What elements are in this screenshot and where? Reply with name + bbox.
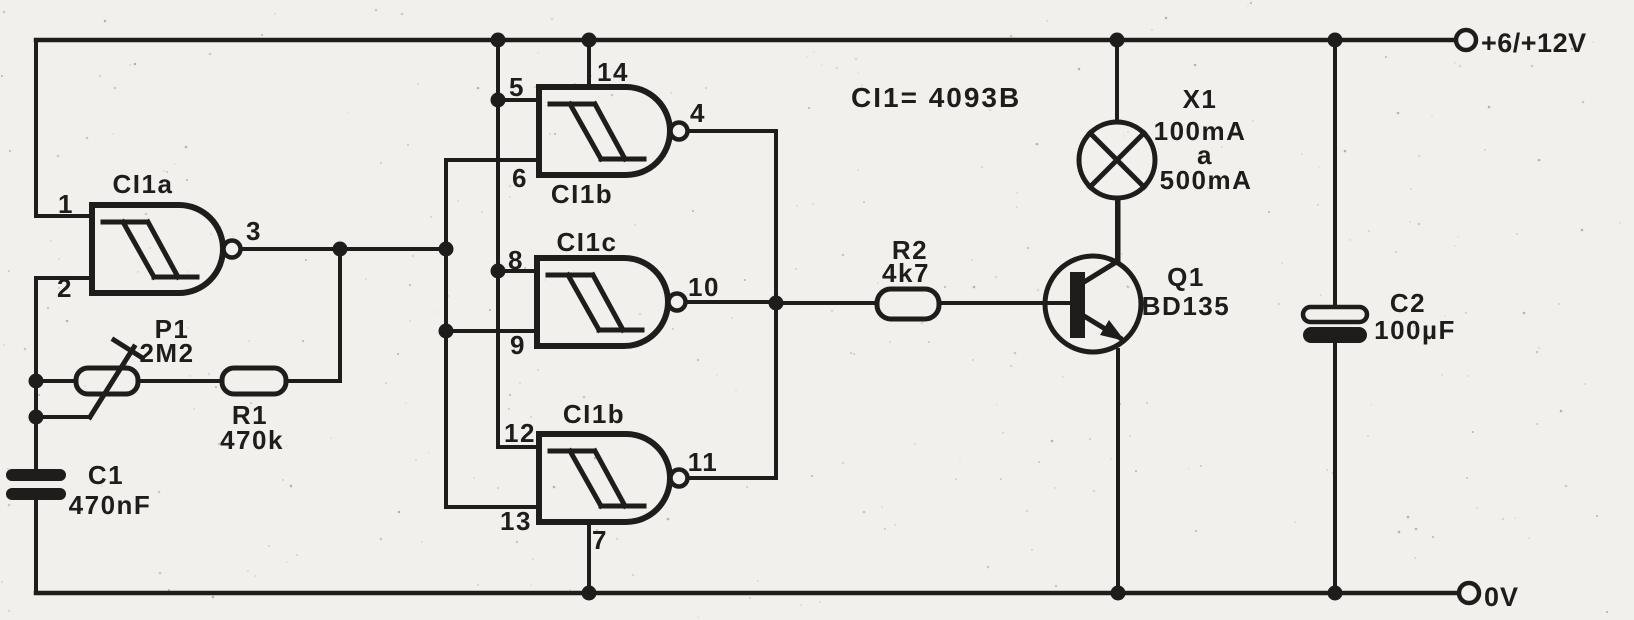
transistor Q1 collector bbox=[1084, 199, 1118, 282]
svg-text:13: 13 bbox=[500, 506, 532, 536]
gate CI1a schmitt symbol bbox=[103, 222, 197, 277]
wire vertical A (pins 6,9,13) bbox=[446, 160, 539, 507]
wire output 4 down to node 10 bbox=[688, 131, 776, 478]
capacitor C1 bottom plate bbox=[6, 488, 66, 500]
op-amp gate CI1c outline bbox=[537, 258, 668, 346]
potentiometer P1 body bbox=[76, 368, 138, 394]
wire P1 to R1 bbox=[138, 379, 222, 383]
terminal +6/+12V bbox=[1456, 30, 1476, 50]
node outputs join bbox=[769, 296, 784, 311]
wire output 10 bbox=[686, 300, 776, 304]
svg-text:CI1c: CI1c bbox=[557, 227, 618, 257]
node vertical B on top rail bbox=[491, 33, 506, 48]
svg-text:+6/+12V: +6/+12V bbox=[1481, 28, 1587, 58]
wire C2 to bottom rail bbox=[1333, 343, 1337, 593]
gate CI1b output bubble bbox=[671, 123, 688, 140]
wire pin 14 to top rail bbox=[587, 40, 591, 87]
svg-text:2: 2 bbox=[57, 273, 73, 303]
wire bottom rail 0V bbox=[36, 591, 1459, 596]
svg-text:14: 14 bbox=[597, 57, 629, 87]
svg-text:470nF: 470nF bbox=[69, 490, 152, 520]
svg-text:0V: 0V bbox=[1484, 582, 1519, 612]
gate CI1b schmitt symbol bbox=[550, 104, 644, 159]
terminal 0V bbox=[1459, 583, 1479, 603]
svg-text:6: 6 bbox=[512, 163, 528, 193]
wire emitter to bottom rail bbox=[1116, 350, 1120, 593]
svg-text:CI1= 4093B: CI1= 4093B bbox=[851, 82, 1021, 113]
svg-text:7: 7 bbox=[592, 525, 608, 555]
op-amp gate CI1a outline bbox=[92, 205, 223, 293]
lamp X1 cross bbox=[1090, 133, 1144, 187]
capacitor C2 positive plate bbox=[1303, 307, 1367, 322]
svg-text:3: 3 bbox=[246, 216, 262, 246]
svg-text:CI1b: CI1b bbox=[563, 399, 625, 429]
wire output 3 bbox=[241, 247, 446, 251]
transistor Q1 base bar bbox=[1070, 272, 1085, 338]
svg-text:2M2: 2M2 bbox=[139, 338, 194, 368]
gate CI1d output bubble bbox=[671, 470, 688, 487]
node pin 8 junction bbox=[491, 264, 506, 279]
transistor Q1 emitter bbox=[1084, 316, 1120, 338]
wire lamp to collector bbox=[1115, 198, 1119, 258]
resistor R1 body bbox=[222, 368, 286, 394]
op-amp gate CI1d outline bbox=[539, 434, 670, 522]
wire pin 2 branch down to P1/C1 bbox=[36, 278, 92, 469]
svg-text:C1: C1 bbox=[88, 460, 124, 490]
wire R2 to base of Q1 bbox=[939, 301, 1069, 305]
wire pin 9 stub bbox=[446, 329, 537, 333]
svg-text:CI1b: CI1b bbox=[551, 179, 613, 209]
node pin 5 junction bbox=[491, 93, 506, 108]
op-amp gate CI1b outline bbox=[539, 87, 670, 175]
potentiometer P1 wiper arrow bbox=[90, 340, 141, 417]
wire vertical B (pins 5,8,12) bbox=[498, 40, 539, 447]
node P1 top junction bbox=[29, 374, 44, 389]
svg-text:10: 10 bbox=[688, 272, 720, 302]
lamp X1 circle bbox=[1079, 122, 1155, 198]
wire pin 8 stub bbox=[498, 269, 537, 273]
svg-text:8: 8 bbox=[508, 245, 524, 275]
svg-text:1: 1 bbox=[58, 189, 74, 219]
wire node to R2 bbox=[776, 301, 877, 305]
svg-text:500mA: 500mA bbox=[1160, 165, 1253, 195]
wire wiper stub bbox=[36, 415, 90, 419]
gate CI1c output bubble bbox=[669, 294, 686, 311]
node P1 wiper junction bbox=[29, 410, 44, 425]
node pin 7 on bottom rail bbox=[582, 586, 597, 601]
node emitter on bottom rail bbox=[1111, 586, 1126, 601]
svg-text:C2: C2 bbox=[1390, 288, 1426, 318]
svg-text:4k7: 4k7 bbox=[882, 258, 930, 288]
wire R1 to output-3 node bbox=[286, 249, 340, 381]
node pin 14 on top rail bbox=[582, 33, 597, 48]
node output 3 / R1 branch bbox=[333, 242, 348, 257]
node pin 9 junction bbox=[439, 324, 454, 339]
gate CI1d schmitt symbol bbox=[550, 451, 644, 506]
gate CI1a output bubble bbox=[224, 241, 241, 258]
svg-text:Q1: Q1 bbox=[1167, 262, 1205, 292]
svg-text:5: 5 bbox=[509, 72, 525, 102]
wire top rail to lamp bbox=[1115, 40, 1119, 122]
wire top rail +V bbox=[36, 38, 1456, 43]
wire output 11 bbox=[688, 476, 776, 480]
node output 3 joins vertical A bbox=[439, 242, 454, 257]
wire left vertical from top rail to pin 1 bbox=[36, 40, 92, 216]
svg-text:BD135: BD135 bbox=[1142, 291, 1230, 321]
capacitor C1 top plate bbox=[6, 469, 66, 481]
svg-text:12: 12 bbox=[504, 418, 536, 448]
svg-text:470k: 470k bbox=[220, 425, 284, 455]
gate CI1c schmitt symbol bbox=[548, 275, 642, 330]
wire below C1 to bottom rail bbox=[34, 500, 38, 593]
node C2 on top rail bbox=[1328, 33, 1343, 48]
wire from node to P1 left bbox=[36, 379, 76, 383]
wire top rail to C2 bbox=[1333, 40, 1337, 307]
transistor Q1 emitter arrowhead bbox=[1100, 320, 1125, 341]
svg-text:X1: X1 bbox=[1183, 84, 1218, 114]
wire pin 7 to bottom rail bbox=[587, 522, 591, 593]
svg-text:CI1a: CI1a bbox=[113, 169, 174, 199]
svg-text:4: 4 bbox=[690, 98, 706, 128]
svg-text:100µF: 100µF bbox=[1374, 315, 1456, 345]
svg-text:11: 11 bbox=[688, 447, 719, 477]
node C2 on bottom rail bbox=[1328, 586, 1343, 601]
capacitor C2 negative plate bbox=[1303, 327, 1367, 343]
wire pin 5 stub bbox=[498, 98, 539, 102]
resistor R2 body bbox=[877, 289, 939, 319]
svg-text:9: 9 bbox=[510, 330, 526, 360]
transistor Q1 circle bbox=[1045, 256, 1141, 352]
node lamp on top rail bbox=[1110, 33, 1125, 48]
